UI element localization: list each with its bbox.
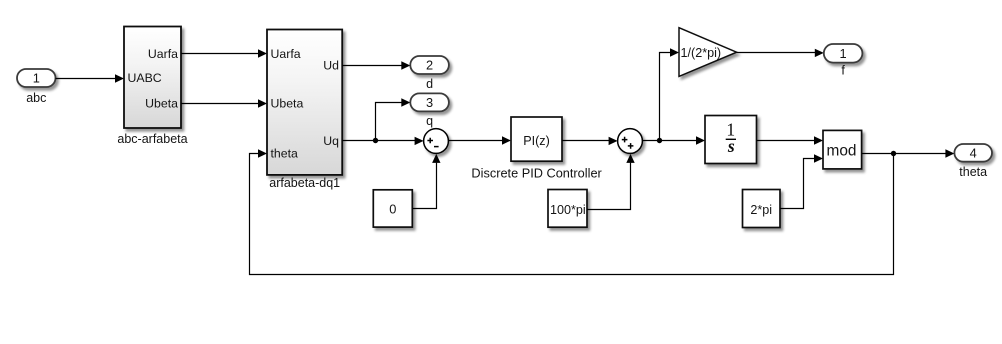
svg-text:UABC: UABC (128, 71, 162, 85)
svg-text:3: 3 (426, 95, 433, 110)
wire: 100*pi to Sum2 (587, 154, 635, 210)
wire: PI(z) to Sum2 (562, 137, 618, 145)
wire: 0 to Sum1 (412, 154, 440, 209)
svg-text:q: q (426, 114, 433, 128)
wire: Sum2 to integrator (642, 136, 705, 144)
svg-text:f: f (841, 64, 845, 78)
svg-text:abc: abc (26, 91, 46, 105)
wire: gain to outport 1 (737, 49, 824, 57)
wire: Ud to outport 2 (342, 61, 410, 69)
svg-text:theta: theta (959, 165, 987, 179)
integrator 1/s (705, 116, 757, 164)
svg-text:PI(z): PI(z) (523, 134, 550, 148)
inport 1 "abc" (17, 69, 56, 105)
sum block Sum2 (+ +) (618, 129, 643, 154)
svg-text:s: s (727, 136, 735, 156)
svg-text:1: 1 (33, 71, 40, 86)
wire: mod to outport 4 (862, 149, 955, 157)
wire: Uq to Sum1 (342, 137, 423, 145)
constant 0 (373, 190, 412, 227)
svg-text:Discrete PID Controller: Discrete PID Controller (471, 166, 602, 181)
svg-text:theta: theta (271, 147, 299, 161)
sum block Sum1 (+ -) (424, 129, 449, 154)
wire: integrator to mod (757, 136, 824, 144)
svg-text:Uarfa: Uarfa (271, 47, 301, 61)
svg-text:100*pi: 100*pi (550, 203, 586, 217)
subsystem arfabeta-dq1 (267, 30, 342, 191)
gain 1/(2*pi) (679, 28, 737, 77)
outport 3 "q" (410, 93, 449, 128)
PID block PI(z) "Discrete PID Controller" (471, 117, 602, 181)
junction: mod output branch (891, 151, 896, 156)
svg-text:arfabeta-dq1: arfabeta-dq1 (269, 176, 340, 190)
svg-text:Uarfa: Uarfa (148, 47, 178, 61)
subsystem abc-arfabeta (117, 27, 187, 147)
wire: abc to UABC (56, 74, 125, 82)
svg-text:Ubeta: Ubeta (145, 97, 178, 111)
constant 100*pi (548, 190, 587, 228)
junction: Sum2 output branch (657, 138, 662, 143)
svg-text:abc-arfabeta: abc-arfabeta (117, 132, 187, 146)
svg-text:d: d (426, 77, 433, 91)
svg-text:1/(2*pi): 1/(2*pi) (681, 46, 722, 60)
svg-text:2*pi: 2*pi (750, 203, 772, 217)
outport 2 "d" (410, 56, 449, 91)
wire: Ubeta to Ubeta (181, 99, 267, 107)
svg-text:mod: mod (827, 143, 857, 160)
svg-text:Uq: Uq (323, 134, 339, 148)
outport 1 "f" (824, 44, 863, 78)
wire: Uarfa to Uarfa (181, 49, 267, 57)
wire: 2*pi to mod (780, 154, 823, 208)
math function mod (823, 130, 862, 169)
svg-text:1: 1 (840, 46, 847, 61)
outport 4 "theta" (954, 144, 992, 179)
junction: Uq branch (373, 138, 378, 143)
svg-text:0: 0 (389, 202, 396, 217)
svg-text:Ud: Ud (323, 58, 339, 72)
svg-text:4: 4 (970, 145, 977, 160)
wire: branch up to gain (660, 48, 680, 140)
svg-text:2: 2 (426, 58, 433, 73)
wire: Sum1 to PI(z) (448, 136, 511, 144)
wire: feedback mod output to theta input (250, 149, 894, 274)
svg-text:Ubeta: Ubeta (271, 97, 304, 111)
constant 2*pi (743, 190, 781, 228)
wire: branch to outport 3 (376, 98, 411, 140)
